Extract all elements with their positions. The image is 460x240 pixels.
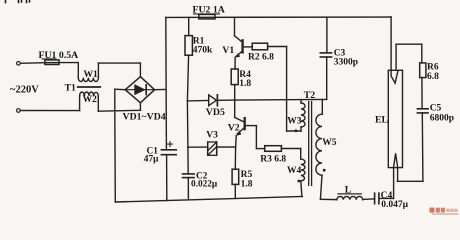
wire R1 bottom to node bbox=[187, 55, 188, 101]
transistor V1 bbox=[235, 17, 253, 69]
bottom rail wire bbox=[115, 197, 302, 203]
wire R2 corner down to W3 bottom node bbox=[286, 47, 288, 132]
svg-text:W3: W3 bbox=[287, 117, 302, 127]
transistor V2 bbox=[235, 117, 257, 147]
terminal: AC input top bbox=[17, 62, 21, 66]
polarity dot W4 bbox=[297, 180, 300, 183]
wire bridge right vertex bbox=[155, 89, 166, 91]
svg-text:W5: W5 bbox=[322, 138, 337, 148]
inductor L bbox=[337, 196, 363, 199]
transformer T2 winding W5 bbox=[321, 100, 323, 115]
capacitor C5 bbox=[417, 108, 428, 110]
lamp EL bottom right pin bbox=[397, 168, 399, 182]
transformer T1 core bbox=[78, 86, 101, 88]
svg-text:3300p: 3300p bbox=[334, 58, 358, 68]
wire W5 to inductor L bbox=[320, 198, 337, 200]
wire W1 right end up bbox=[97, 63, 99, 78]
transformer T1 winding W1 bbox=[78, 78, 98, 82]
wire down left side bbox=[114, 89, 116, 111]
terminal: AC input bottom bbox=[17, 109, 21, 113]
lamp EL top electrode bbox=[391, 70, 398, 83]
wire to R3 bbox=[256, 148, 264, 150]
wire R6 to C5 bbox=[421, 78, 423, 109]
wire terminal to FU1 bbox=[20, 62, 45, 65]
wire V2 node to W3 node bbox=[235, 99, 287, 101]
wire left vertical to bottom rail bbox=[114, 111, 117, 202]
wire down to W4 top bbox=[300, 149, 302, 160]
capacitor C1 bbox=[161, 149, 176, 151]
wire W2 to bridge bottom bbox=[98, 109, 140, 112]
wire lamp top right pin bbox=[395, 44, 397, 70]
wire to R6 bbox=[396, 43, 422, 45]
wire W2 right end down bbox=[97, 96, 99, 111]
wire VD5 anode bbox=[187, 100, 208, 102]
lamp EL bottom electrode bbox=[394, 153, 398, 167]
svg-text:1.8: 1.8 bbox=[239, 79, 251, 89]
wire down to R6 bbox=[421, 44, 423, 63]
wire V2 base down bbox=[255, 126, 257, 149]
wire rail to lamp top left pin bbox=[390, 17, 392, 70]
wire W1 to bridge top bbox=[98, 62, 140, 64]
wire V3 wire to C2 bbox=[187, 147, 189, 174]
polarity dot W5 bbox=[323, 169, 326, 172]
wire V3 to V2 emitter line bbox=[216, 146, 235, 148]
fuse FU1 bbox=[45, 62, 59, 64]
wire W3 node to C3 corner bbox=[287, 98, 327, 100]
wire to lamp bottom right pin bbox=[398, 180, 423, 182]
wire FU1 to W1 bbox=[59, 62, 78, 64]
capacitor C3 bbox=[326, 17, 328, 53]
resistor R4 bbox=[231, 69, 238, 85]
wire emitter line to R5 bbox=[234, 147, 236, 169]
svg-text:1.8: 1.8 bbox=[241, 179, 253, 189]
transformer T1 winding W2 bbox=[80, 92, 99, 96]
svg-text:C5: C5 bbox=[430, 104, 442, 114]
wire down to W1 left end bbox=[77, 63, 79, 78]
fuse FU2 bbox=[199, 14, 215, 19]
resistor R1 bbox=[188, 17, 190, 35]
wire VD5 cathode to V2 node bbox=[217, 99, 234, 101]
resistor R2 bbox=[252, 43, 267, 50]
svg-text:VD1~VD4: VD1~VD4 bbox=[123, 112, 166, 123]
transformer T2 core bbox=[309, 102, 312, 186]
svg-text:6.8: 6.8 bbox=[427, 72, 439, 82]
wire up to bridge bottom vertex bbox=[139, 103, 141, 111]
svg-text:EL: EL bbox=[375, 114, 389, 125]
resistor R6 bbox=[420, 63, 426, 78]
svg-text:V1: V1 bbox=[222, 45, 234, 56]
svg-text:47μ: 47μ bbox=[144, 155, 159, 165]
svg-text:R3 6.8: R3 6.8 bbox=[260, 155, 286, 165]
svg-text:V2: V2 bbox=[228, 123, 240, 134]
svg-text:470k: 470k bbox=[193, 46, 213, 56]
wire W2 left end down bbox=[79, 96, 81, 111]
top rail wire bbox=[166, 16, 391, 18]
wire C3 bottom to T2 wire bbox=[326, 57, 328, 99]
wire down to bridge top vertex bbox=[139, 63, 141, 77]
wire V2 collector from node bbox=[234, 100, 236, 117]
lamp EL tube bbox=[388, 70, 402, 167]
wire main vertical x166 (rail to C1) bbox=[165, 17, 168, 149]
wire C5 down bbox=[421, 113, 424, 181]
wire bridge left vertex bbox=[115, 88, 125, 91]
svg-text:V3: V3 bbox=[206, 130, 218, 140]
svg-text:6800p: 6800p bbox=[430, 113, 454, 123]
transformer T2 winding W3 bbox=[300, 100, 302, 103]
wire R3 right bbox=[281, 148, 300, 150]
wire W5 bottom down bbox=[320, 175, 322, 199]
diode VD5 bbox=[209, 95, 217, 106]
watermark logo bottom right bbox=[429, 208, 458, 215]
resistor R5 bbox=[232, 169, 239, 184]
wire node vertical x187 (VD5 wire to V3 wire) bbox=[186, 101, 189, 147]
svg-text:W4: W4 bbox=[287, 166, 302, 176]
wire C1 to bottom rail bbox=[166, 155, 168, 201]
svg-text:R6: R6 bbox=[427, 62, 439, 72]
svg-text:0.047μ: 0.047μ bbox=[381, 200, 408, 210]
wire R2 right bbox=[268, 46, 287, 48]
svg-text:VD5: VD5 bbox=[206, 107, 225, 118]
lamp EL bottom left pin bbox=[393, 168, 395, 199]
capacitor C4 bbox=[374, 193, 376, 204]
svg-text:T1: T1 bbox=[65, 82, 77, 93]
diac V3 bbox=[188, 146, 208, 148]
plus sign C1 bbox=[168, 142, 173, 147]
wire C2 to bottom rail bbox=[187, 178, 189, 200]
svg-text:0.022μ: 0.022μ bbox=[191, 180, 218, 190]
scan tick marks top-left bbox=[6, 0, 30, 3]
svg-text:R2 6.8: R2 6.8 bbox=[248, 52, 274, 62]
resistor R3 bbox=[265, 146, 282, 152]
svg-text:W2: W2 bbox=[83, 95, 98, 105]
polarity dot W3 bbox=[295, 129, 298, 132]
capacitor C2 bbox=[183, 173, 195, 175]
svg-text:W1: W1 bbox=[84, 70, 99, 80]
wire L to C4 bbox=[363, 198, 375, 201]
transformer T2 winding W4 bbox=[301, 159, 305, 181]
bridge rectifier VD1~VD4 bbox=[125, 77, 154, 103]
svg-text:T2: T2 bbox=[304, 90, 316, 101]
wire R4 bottom to node bbox=[234, 85, 236, 101]
wire W4 bottom to rail bbox=[301, 181, 302, 197]
wire W2 to bottom terminal bbox=[20, 110, 79, 112]
svg-text:~220V: ~220V bbox=[10, 85, 39, 96]
wire R5 to bottom rail bbox=[234, 184, 236, 198]
wire W3 bottom node bbox=[287, 130, 301, 132]
wire C4 to lamp bottom left pin bbox=[379, 197, 394, 199]
